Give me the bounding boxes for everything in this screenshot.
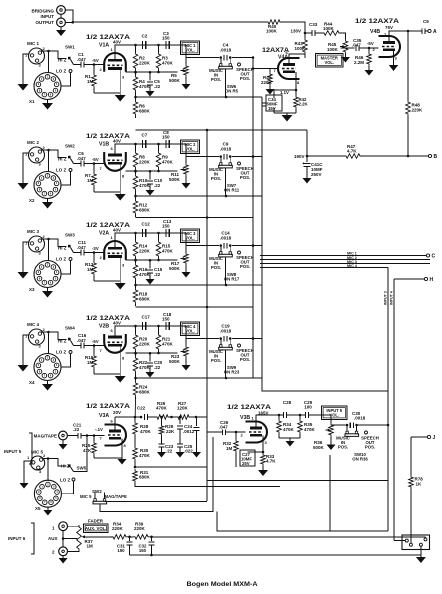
ground R46 (365, 69, 374, 76)
svg-text:190V: 190V (294, 154, 305, 159)
svg-text:SW5: SW5 (77, 466, 87, 471)
svg-text:120K: 120K (177, 406, 189, 411)
pin labels V4A (274, 50, 301, 85)
wire V4B grid (377, 47, 379, 49)
wire output A down (407, 31, 409, 100)
wire X5 LOZ (61, 481, 74, 494)
wire switch to grid (74, 157, 105, 165)
svg-text:INPUT 5: INPUT 5 (4, 449, 22, 454)
volume box MIC 1 (181, 41, 200, 55)
ground V4A cathode (282, 113, 293, 122)
svg-text:ON R23: ON R23 (224, 370, 240, 375)
ground socket (42, 99, 53, 110)
capacitor C22 (137, 406, 148, 421)
wire R40 to node (282, 22, 305, 33)
speech contact circle (238, 63, 241, 66)
terminal A (425, 29, 437, 35)
pin labels (100, 67, 126, 80)
master volume box (316, 54, 344, 68)
svg-text:680K: 680K (139, 475, 151, 480)
svg-text:C28: C28 (283, 400, 292, 405)
svg-text:220K: 220K (139, 249, 151, 254)
resistor R48 220K (406, 100, 423, 157)
resistor R43 100K (295, 33, 308, 58)
svg-text:150: 150 (162, 36, 170, 41)
svg-text:POS.: POS. (240, 357, 250, 362)
wire mic5 pin2 (42, 457, 67, 481)
svg-text:POS.: POS. (211, 77, 221, 82)
switch labels (209, 348, 254, 375)
svg-text:C17: C17 (142, 315, 151, 320)
svg-text:C: C (432, 254, 436, 260)
ground R36 (327, 437, 336, 450)
svg-text:POS.: POS. (211, 265, 221, 270)
svg-text:1/2 12AX7A: 1/2 12AX7A (86, 133, 130, 140)
svg-text:V4B: V4B (370, 29, 380, 35)
tube socket X5 (34, 480, 61, 511)
wire rail4 (136, 284, 263, 287)
strip pin 1 (405, 539, 408, 542)
svg-text:40V: 40V (113, 228, 121, 233)
svg-text:220K: 220K (134, 526, 146, 531)
wire mic pin1 to ground (23, 242, 30, 272)
ground pot (182, 77, 191, 90)
svg-text:.22: .22 (154, 365, 161, 370)
svg-text:470K: 470K (140, 429, 152, 434)
wire music bus vertical (252, 56, 255, 378)
svg-text:100K: 100K (266, 29, 278, 34)
strip pin 3 (419, 543, 422, 546)
strip pin 4 (424, 538, 427, 541)
capacitor C35 .047 (352, 38, 362, 51)
svg-text:500K: 500K (169, 266, 181, 271)
capacitor C4 .0018 (220, 43, 232, 61)
wire mic pin2 to switch (41, 50, 67, 59)
svg-text:.22: .22 (73, 427, 80, 432)
svg-text:POS.: POS. (338, 445, 348, 450)
svg-text:ON R5: ON R5 (225, 89, 239, 94)
wire grid lead (97, 163, 104, 165)
wire rail corner (185, 326, 187, 339)
wire B+ rail ch1 (136, 129, 308, 132)
ground cathode (115, 374, 126, 383)
capacitor C29 100 (287, 400, 331, 418)
svg-text:FADER: FADER (88, 519, 104, 524)
ground pot (182, 265, 191, 278)
wire B+ rail ch3 (136, 306, 254, 309)
wire switch to grid (74, 246, 105, 254)
svg-text:VOL.: VOL. (185, 236, 195, 241)
mag/tape connector (34, 431, 68, 440)
svg-text:SW2: SW2 (92, 489, 102, 494)
triode V4B (379, 36, 401, 57)
capacitor C26 .047 (207, 420, 246, 435)
svg-text:40V: 40V (113, 139, 121, 144)
svg-text:B: B (434, 154, 438, 160)
resistor R30 470K (133, 446, 151, 467)
wire MIC3 line (260, 260, 430, 264)
resistor R1 1M (85, 65, 96, 94)
pin labels (100, 255, 126, 268)
wire INPUT4 vertical (390, 279, 406, 541)
wire lower rail (wiper) (126, 170, 178, 173)
svg-text:150: 150 (162, 135, 170, 140)
ground aux2 (59, 556, 68, 564)
wire grid lead (97, 345, 104, 347)
svg-text:HI Z: HI Z (58, 157, 67, 162)
svg-text:LO Z: LO Z (56, 168, 66, 173)
svg-text:150: 150 (117, 548, 125, 553)
ground strip (416, 555, 426, 563)
tube socket X2 (29, 172, 61, 204)
tube V1A 1/2 12AX7A label (86, 34, 130, 49)
resistor R12 680K (133, 195, 150, 217)
ground mic (18, 365, 29, 372)
svg-text:H: H (430, 277, 434, 283)
svg-text:150: 150 (162, 224, 170, 229)
mic input connector MIC 1 (25, 41, 46, 68)
resistor R47 4.7K (344, 144, 362, 158)
wire grid lead (97, 252, 104, 254)
svg-text:250V: 250V (311, 172, 322, 177)
potentiometer R5 500K (169, 58, 188, 84)
wire lower rail (wiper) (126, 259, 178, 262)
wire ch5 lower rail (134, 466, 207, 469)
capacitor C30 .0018 (350, 411, 366, 428)
svg-text:220K: 220K (139, 160, 151, 165)
ground cap (146, 190, 155, 196)
svg-text:150: 150 (139, 548, 147, 553)
svg-text:VOL.: VOL. (185, 147, 195, 152)
ground socket (42, 198, 53, 209)
wire switch to grid (74, 339, 105, 347)
wire B line (307, 155, 428, 157)
wire rail4 (136, 377, 263, 380)
svg-text:SW2: SW2 (65, 144, 75, 149)
wire bridging (65, 10, 266, 24)
resistor R8 220K (133, 143, 150, 171)
wire socket top (48, 239, 50, 261)
wire cathode (94, 257, 120, 282)
svg-text:ON R17: ON R17 (224, 277, 240, 282)
wire aux (62, 531, 78, 547)
switch labels (209, 67, 254, 94)
wire SW10 line (331, 424, 389, 427)
resistor R31 680K (133, 469, 280, 487)
fader box (84, 519, 109, 533)
svg-text:.22: .22 (166, 449, 173, 454)
wire V3B section bottom (207, 480, 388, 482)
wire plate to rail (111, 233, 187, 248)
svg-text:INPUT: INPUT (41, 14, 55, 19)
svg-text:J: J (433, 435, 436, 441)
svg-text:X5: X5 (35, 506, 41, 511)
terminal C (426, 254, 435, 260)
svg-text:.0018: .0018 (220, 236, 232, 241)
svg-text:V1A: V1A (99, 43, 109, 49)
svg-text:-5V: -5V (92, 58, 99, 63)
strip pin 2 (409, 543, 412, 546)
switch SW music/speech (219, 246, 233, 257)
svg-text:C7: C7 (142, 133, 148, 138)
volume box MIC 2 (181, 140, 200, 154)
wire rail4 (136, 96, 263, 99)
svg-text:POS.: POS. (365, 445, 375, 450)
svg-text:LO Z: LO Z (56, 69, 66, 74)
svg-text:X1: X1 (29, 99, 35, 104)
svg-text:.0018: .0018 (220, 329, 232, 334)
capacitor C2 series (142, 34, 148, 50)
tube socket X4 (29, 354, 61, 386)
svg-text:1.1V: 1.1V (280, 90, 289, 95)
svg-text:220K: 220K (139, 61, 151, 66)
wire switch line (186, 244, 262, 247)
svg-text:100K: 100K (295, 46, 307, 51)
capacitor C1 .047 (77, 52, 86, 68)
svg-text:47K: 47K (83, 448, 92, 453)
wire lower rail (wiper) (126, 71, 178, 74)
wire strip right (425, 537, 427, 538)
wire mic5 ground (20, 461, 31, 489)
wire plate to rail (111, 326, 187, 337)
speech contact circle (238, 251, 241, 254)
aux connector 1 (52, 522, 68, 531)
triode V2B (104, 334, 126, 353)
speech contact circle (238, 162, 241, 165)
tube V4A label (262, 47, 289, 61)
volume box MIC 3 (181, 229, 200, 243)
capacitor C18 150 (162, 312, 172, 330)
wire V4A grid (252, 29, 307, 70)
potentiometer R37 1M (68, 525, 113, 551)
capacitor C23 .22 (159, 444, 174, 454)
resistor R40 100K (266, 20, 282, 34)
svg-text:X2: X2 (29, 198, 35, 203)
svg-text:.047: .047 (77, 156, 86, 161)
svg-text:.047: .047 (77, 338, 86, 343)
switch SW2 MIC5/MAGTAPE (80, 489, 127, 504)
potentiometer R17 500K (169, 246, 188, 272)
svg-text:-.1V: -.1V (95, 427, 103, 432)
resistor R22 470K (133, 352, 150, 378)
resistor R78 1K (409, 437, 424, 544)
wire socket top (48, 51, 50, 73)
resistor R21 470K (156, 325, 173, 353)
svg-text:MAG/TAPE: MAG/TAPE (34, 434, 57, 439)
svg-text:POS.: POS. (240, 76, 250, 81)
svg-text:15V: 15V (268, 106, 276, 111)
svg-text:AUX: AUX (48, 536, 58, 541)
capacitor C8 150 (162, 130, 170, 148)
switch SW music/speech (219, 58, 233, 69)
ground pot (182, 358, 191, 371)
svg-text:X3: X3 (29, 287, 35, 292)
svg-text:VOL.: VOL. (185, 329, 195, 334)
grounds ch5 (157, 452, 201, 458)
resistor R34 470K (277, 415, 295, 438)
svg-text:V1B: V1B (99, 142, 109, 148)
triode V1A (104, 53, 126, 72)
svg-text:.047: .047 (77, 245, 86, 250)
capacitor C16 .047 (77, 333, 87, 349)
wire cathode (94, 69, 120, 94)
resistor R26 470K (148, 401, 173, 419)
resistor R44 100K (315, 22, 345, 40)
ground socket (42, 380, 53, 391)
svg-text:-5V: -5V (92, 339, 99, 344)
wire switch to rail4 (225, 168, 227, 197)
ground V4B (389, 64, 399, 71)
svg-text:+: + (302, 161, 305, 166)
ground cathode (115, 281, 126, 290)
svg-text:HI Z: HI Z (58, 58, 67, 63)
title Bogen Model MXM-A (187, 581, 258, 588)
svg-text:VOL.: VOL. (185, 48, 195, 53)
svg-text:MIC 4: MIC 4 (27, 322, 39, 327)
svg-text:.0018: .0018 (220, 147, 232, 152)
ground R41 (266, 86, 275, 95)
tube V4B label (355, 18, 399, 35)
svg-text:HI Z: HI Z (58, 246, 67, 251)
capacitor C7 series (142, 133, 148, 149)
wire switch line (186, 337, 262, 340)
wire V3B plate (256, 415, 283, 428)
bridging connector output (32, 6, 66, 27)
capacitor C21 .22 (68, 423, 82, 439)
wire socket to LO-Z (61, 354, 71, 368)
mic5 connector (27, 450, 46, 475)
wire bus vertical 3 (262, 97, 388, 391)
wire grid lead (97, 64, 104, 66)
wire mic pin2 to switch (41, 238, 67, 247)
svg-text:220K: 220K (139, 342, 151, 347)
tube socket X3 (29, 261, 61, 293)
wire V4A plate (289, 54, 305, 65)
svg-text:500K: 500K (169, 359, 181, 364)
svg-text:100K: 100K (323, 26, 335, 31)
pin labels V4B (373, 32, 398, 61)
switch SW3 HI-Z/LO-Z (56, 233, 75, 262)
resistor R25 47K (82, 436, 96, 459)
svg-text:MIC 5: MIC 5 (80, 494, 92, 499)
wire strip gnd (420, 546, 422, 555)
pin labels (100, 348, 126, 361)
svg-text:.047: .047 (219, 425, 228, 430)
svg-text:470K: 470K (162, 342, 174, 347)
switch SW1 HI-Z/LO-Z (56, 45, 75, 74)
svg-text:40V: 40V (113, 40, 121, 45)
capacitor C5 .22 (147, 71, 161, 91)
resistor R28 470K (133, 416, 152, 446)
svg-text:2.2K: 2.2K (299, 102, 309, 107)
svg-text:POS.: POS. (240, 175, 250, 180)
resistor R13 1M (85, 253, 96, 282)
svg-text:.047: .047 (352, 43, 361, 48)
input5 bracket (4, 433, 32, 464)
ground cathode (115, 93, 126, 102)
svg-text:680K: 680K (139, 208, 151, 213)
svg-text:MIC 3: MIC 3 (27, 229, 39, 234)
svg-text:MIC 4: MIC 4 (347, 264, 358, 268)
tube V3A label (86, 403, 130, 419)
potentiometer R36 500K (313, 423, 333, 450)
svg-text:C9: C9 (423, 19, 429, 24)
capacitor C19 .0018 (220, 324, 232, 342)
wire SW5 up (74, 434, 89, 471)
ground V3B cathode (258, 469, 268, 476)
wire switch to grid (74, 58, 105, 66)
speech contact circle (238, 344, 241, 347)
wire V4B cathode (393, 50, 395, 64)
mic input connector MIC 3 (25, 229, 46, 256)
svg-text:.22: .22 (154, 183, 161, 188)
svg-text:20V: 20V (113, 410, 121, 415)
tube V1B 1/2 12AX7A label (86, 133, 130, 148)
capacitor C27 10MF 25V (240, 450, 263, 466)
terminal B (428, 154, 437, 160)
wire plate to rail (111, 144, 187, 155)
input6 bracket (8, 523, 34, 554)
resistor R20 220K (133, 325, 150, 353)
wire mic pin1 to ground (23, 54, 30, 84)
wire bottom loop (217, 455, 388, 531)
wire INPUT3 vertical (384, 268, 389, 532)
ground cap (146, 279, 155, 285)
terminal strip box (402, 535, 430, 550)
wire socket top (48, 150, 50, 172)
svg-text:-5V: -5V (367, 41, 374, 46)
svg-text:4.7K: 4.7K (266, 459, 276, 464)
wire MIC1 line (260, 252, 426, 256)
capacitor C12 series (142, 222, 151, 238)
wire switch to rail4 (225, 69, 227, 98)
capacitor C13 150 (162, 219, 172, 237)
resistor R14 220K (133, 232, 150, 260)
triode V3A (105, 425, 127, 446)
ground socket (42, 287, 53, 298)
ground cap (146, 91, 155, 97)
wire V4A cathode (274, 72, 297, 95)
svg-text:C22: C22 (137, 406, 146, 411)
wire B+ rail ch2 (136, 216, 254, 219)
switch SW music/speech (219, 339, 233, 350)
svg-text:MAG/TAPE: MAG/TAPE (105, 494, 127, 499)
svg-text:INPUT 6: INPUT 6 (8, 536, 26, 541)
ground V3A (118, 458, 127, 465)
terminal J (411, 435, 436, 441)
tube V3B label (227, 404, 271, 421)
svg-text:INPUT 3: INPUT 3 (384, 291, 388, 305)
resistor R9 470K (156, 143, 173, 171)
capacitor C9out (422, 19, 429, 34)
svg-text:100: 100 (304, 405, 312, 410)
wire rail corner (185, 144, 187, 157)
svg-text:22K: 22K (166, 429, 175, 434)
svg-text:POS.: POS. (211, 176, 221, 181)
svg-text:MIC 5: MIC 5 (31, 450, 43, 455)
capacitor C24b (194, 417, 200, 452)
tube V2B 1/2 12AX7A label (86, 315, 130, 330)
capacitor C33 (305, 22, 318, 36)
svg-text:2.2M: 2.2M (354, 60, 364, 65)
wire socket to LO-Z (61, 172, 71, 186)
resistor R29 22K (159, 416, 175, 444)
switch SW10 (345, 425, 359, 436)
resistor R35 470K (279, 415, 316, 441)
wire V3A plate (115, 417, 141, 431)
aux connector 2 (52, 547, 68, 556)
wire switch to rail4 (225, 257, 227, 286)
